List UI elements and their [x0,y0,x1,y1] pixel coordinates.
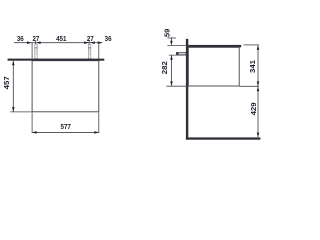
arrowhead right at line end x=102.3 [98,41,103,44]
svg-text:27: 27 [87,34,94,43]
svg-text:457: 457 [2,76,11,89]
top dimension line [14,42,102,44]
svg-text:36: 36 [105,34,112,43]
282 top extension [169,54,186,56]
svg-text:429: 429 [249,102,258,115]
282 dim line [171,55,173,86]
arrowhead left at x=90.2 [90,41,95,44]
extension line right (cabinet right edge up) [98,43,100,59]
arrowhead left at x=36.1 [36,41,41,44]
429 dim line [257,87,259,138]
59 top extension stub [167,37,176,39]
extension line 577 right [98,112,100,133]
svg-text:36: 36 [17,34,24,43]
wall panel (thick vertical bar) [186,39,188,140]
arrowhead up 429 [257,87,260,92]
floor (thick bar) [186,137,261,139]
cabinet bottom extension (right) [240,85,259,87]
arrowhead down 457 [12,107,15,112]
svg-text:341: 341 [248,60,257,73]
extension line bottom left [10,111,32,113]
countertop (side view, thick bar) [188,45,241,47]
svg-text:577: 577 [61,122,71,131]
341 dim line [257,45,259,86]
dim 457 vertical line [12,61,14,112]
arrowhead down 429 [257,133,260,138]
arrowhead up 341 [257,45,260,50]
arrowhead right at x=31.5 [27,41,32,44]
59 dim line [170,37,172,44]
arrowhead down 282 [170,81,173,86]
arrowhead right 577 [94,131,99,134]
arrowhead up 282 [170,55,173,60]
countertop top extension (right) [244,44,259,46]
tick at right fixing hole [88,41,90,45]
arrowhead right at x=88.7 [84,41,89,44]
cabinet body (front view) [32,61,99,112]
left fixing screw (hatched box) [34,44,37,58]
countertop top extension (left of wall) [167,45,186,47]
tick at left fixing hole [34,41,36,45]
countertop (front view, thick bar) [8,59,105,61]
arrowhead up 457 [12,61,15,66]
cabinet bottom extension (left) [166,85,188,87]
svg-text:27: 27 [32,34,39,43]
dim 577 line [32,131,99,133]
arrowhead down 341 [257,82,260,87]
arrowhead left 577 [32,131,37,134]
extension line left (cabinet left edge up) [31,43,33,59]
cabinet body (side view) [188,47,239,86]
wall fixing screw (side view) [176,52,186,55]
extension line 577 left [31,112,33,133]
svg-text:59: 59 [162,29,171,37]
arrowhead down 59 [170,41,173,46]
right fixing screw (hatched box) [88,44,91,58]
svg-text:451: 451 [56,34,67,43]
svg-text:282: 282 [160,61,169,74]
